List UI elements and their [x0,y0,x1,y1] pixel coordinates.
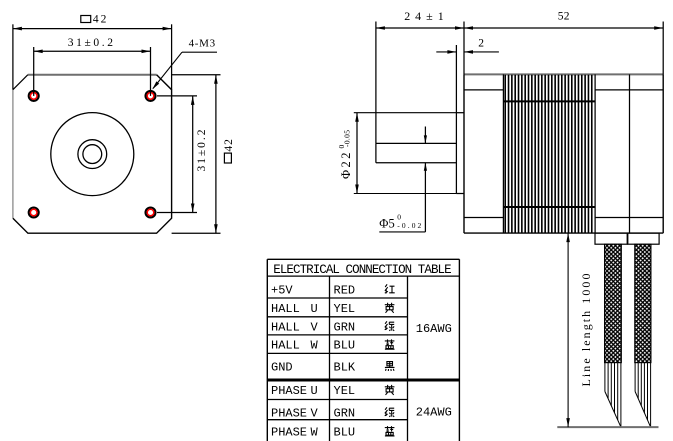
svg-text:HALL: HALL [271,320,300,334]
svg-text:42: 42 [223,139,235,152]
svg-text:Line length 1000: Line length 1000 [579,274,593,387]
svg-text:GRN: GRN [334,320,356,334]
svg-text:GRN: GRN [334,406,356,420]
svg-text:U: U [311,384,318,398]
svg-text:4-M3: 4-M3 [189,38,216,50]
svg-text:V: V [311,320,319,334]
svg-text:24AWG: 24AWG [416,406,452,420]
svg-text:-0.05: -0.05 [342,130,351,147]
svg-text:BLK: BLK [334,361,356,375]
svg-text:-0.02: -0.02 [397,221,421,230]
svg-text:52: 52 [558,11,570,23]
svg-text:HALL: HALL [271,339,300,353]
svg-text:W: W [311,339,319,353]
svg-text:+5V: +5V [271,283,293,297]
svg-text:YEL: YEL [334,302,356,316]
svg-text:Φ22: Φ22 [339,153,353,180]
svg-text:2: 2 [478,38,484,50]
svg-text:V: V [311,406,319,420]
svg-text:HALL: HALL [271,302,300,316]
svg-text:Φ5: Φ5 [379,216,395,230]
svg-text:42: 42 [93,14,107,26]
svg-text:BLU: BLU [334,425,356,439]
svg-text:ELECTRICAL CONNECTION TABLE: ELECTRICAL CONNECTION TABLE [273,263,451,277]
svg-text:GND: GND [271,361,293,375]
svg-text:16AWG: 16AWG [416,322,452,336]
svg-text:W: W [311,425,319,439]
svg-text:YEL: YEL [334,384,356,398]
svg-text:PHASE: PHASE [271,384,307,398]
svg-text:PHASE: PHASE [271,406,307,420]
svg-text:U: U [311,302,318,316]
svg-text:PHASE: PHASE [271,425,307,439]
svg-text:RED: RED [334,283,356,297]
svg-text:BLU: BLU [334,339,356,353]
